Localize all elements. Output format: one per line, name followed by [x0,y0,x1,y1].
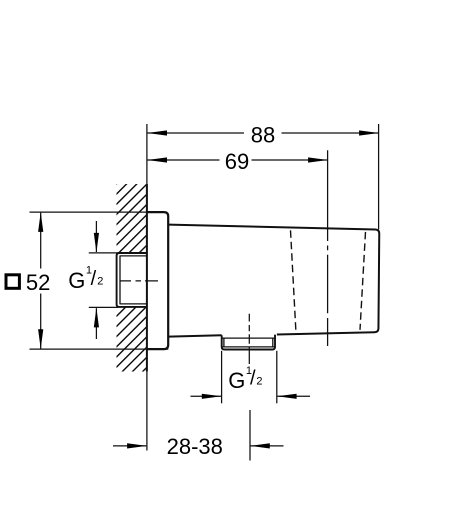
svg-text:/: / [91,268,97,290]
svg-text:/: / [250,368,256,390]
svg-text:69: 69 [225,149,249,174]
svg-text:G: G [228,368,245,393]
svg-text:2: 2 [97,276,103,288]
svg-text:28-38: 28-38 [167,434,223,459]
svg-text:G: G [68,268,85,293]
svg-text:52: 52 [26,270,50,295]
svg-text:2: 2 [256,376,262,388]
svg-text:88: 88 [251,122,275,147]
